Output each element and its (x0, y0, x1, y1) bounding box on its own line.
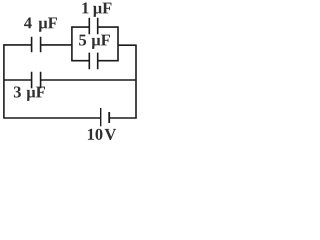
label unit "uF" of capacitor 3uF (27, 87, 45, 101)
label unit "uF" of capacitor 1uF (93, 3, 111, 17)
label value "10" of battery 10V (88, 129, 103, 140)
label value "3" of capacitor 3uF (14, 86, 21, 97)
wire block top branch (71, 26, 118, 28)
capacitor 3uF plates (32, 72, 41, 89)
label unit "uF" of capacitor 5uF (92, 35, 110, 49)
battery 10V positive long plate (100, 108, 102, 126)
capacitor 4uF plates (32, 37, 41, 53)
wire block bottom branch (71, 60, 118, 62)
capacitor 1uF plates (89, 18, 97, 35)
wire bottom horizontal (4, 117, 137, 119)
wire block to right rail (118, 44, 136, 46)
capacitor 5uF plates (89, 53, 97, 70)
label unit "V" of battery 10V (105, 129, 117, 140)
label value "4" of capacitor 4uF (24, 17, 32, 28)
node parallel-block left rail (71, 26, 73, 61)
wire right rail (135, 45, 137, 119)
wire top-left horizontal (4, 44, 72, 46)
wire left rail (3, 44, 5, 118)
node parallel-block right rail (117, 26, 119, 61)
wire middle horizontal (4, 79, 137, 81)
label value "1" of capacitor 1uF (82, 3, 88, 14)
label unit "uF" of capacitor 4uF (39, 18, 57, 32)
label value "5" of capacitor 5uF (79, 35, 86, 46)
battery 10V negative short plate (108, 112, 110, 123)
